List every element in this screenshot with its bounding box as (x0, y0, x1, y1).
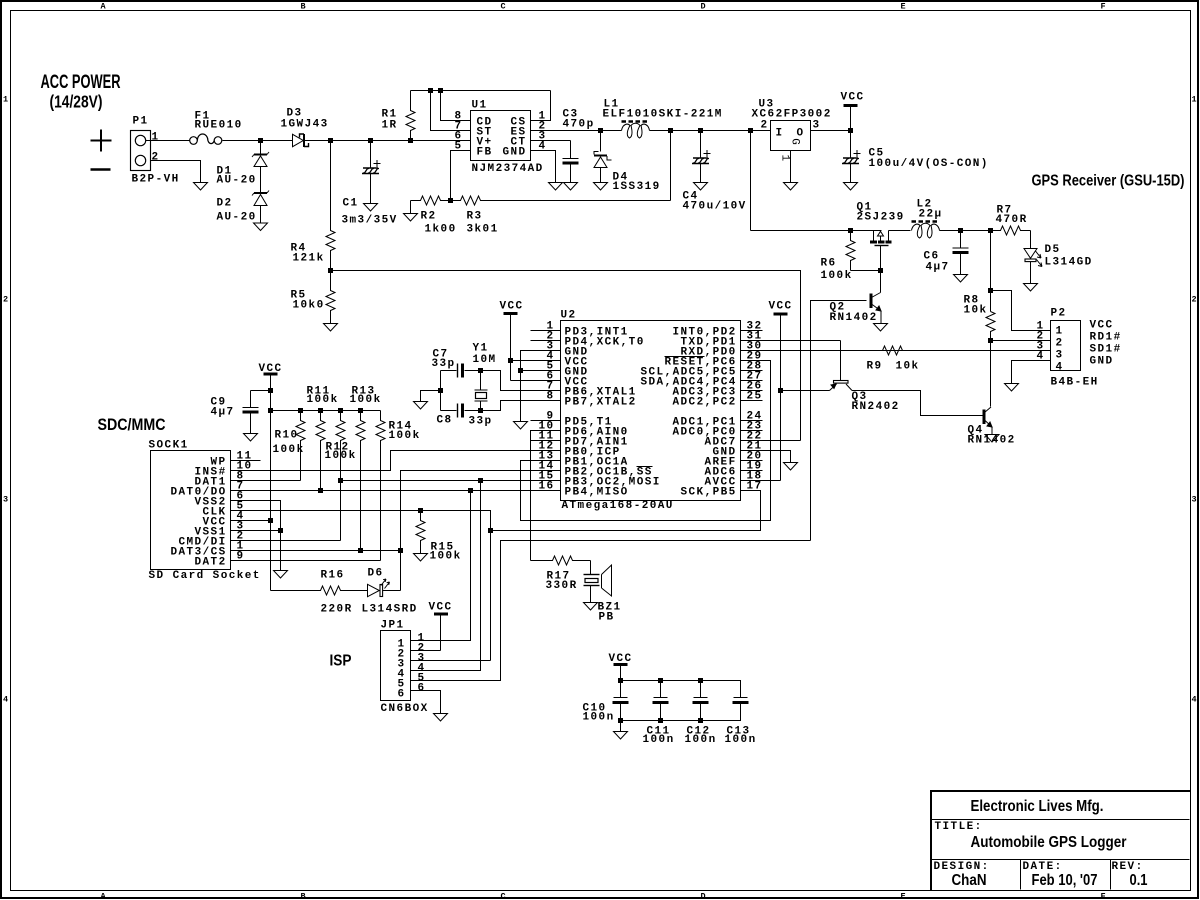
ground BZ1 (584, 603, 598, 611)
resistor R3 (451, 196, 671, 205)
svg-text:6: 6 (398, 689, 406, 701)
svg-text:1GWJ43: 1GWJ43 (281, 119, 329, 131)
label C11 100n (643, 734, 675, 746)
svg-text:10k: 10k (896, 361, 920, 373)
svg-text:2: 2 (152, 152, 160, 164)
svg-text:Automobile GPS Logger: Automobile GPS Logger (971, 834, 1127, 851)
node top b (438, 88, 443, 93)
regulator U3 box (771, 121, 811, 151)
label VCC ISP (429, 602, 453, 614)
ground pin21 (784, 463, 798, 471)
label ATmega168-20AU (562, 500, 674, 512)
resistor R12 (336, 411, 345, 541)
svg-text:330R: 330R (546, 580, 578, 592)
label C3 (563, 109, 579, 121)
node decouple top 1 (658, 678, 663, 683)
svg-text:TITLE:: TITLE: (935, 821, 983, 833)
wire JP1 pin1 MISO (411, 491, 471, 641)
label U2 (561, 310, 577, 322)
ground D2 (254, 223, 268, 231)
wire P2 pin4 gnd (1012, 361, 1051, 384)
label D2 (217, 198, 233, 210)
svg-text:RD1#: RD1# (1090, 332, 1122, 344)
label R13 (352, 386, 376, 398)
JP1 pin 4 (418, 663, 426, 675)
svg-text:R3: R3 (467, 211, 483, 223)
capacitor C11 (660, 681, 662, 698)
label JP1 (381, 620, 405, 632)
ground JP1 (434, 714, 448, 722)
label P1 (133, 116, 149, 128)
svg-text:E: E (901, 892, 906, 900)
wire xtal2 to pin8 (481, 401, 561, 411)
label Q3 RN2402 (852, 401, 900, 413)
label Y1 10M (473, 354, 497, 366)
plus symbol (91, 130, 112, 152)
svg-text:C: C (501, 2, 506, 12)
JP1 pin 1 (418, 633, 426, 645)
label B4B-EH (1051, 377, 1099, 389)
resistor R16 (271, 586, 351, 595)
node VCC main (848, 128, 853, 133)
wire INS# net (231, 451, 561, 471)
node R13 dat3 (358, 548, 363, 553)
label P2 VCC (1090, 320, 1114, 332)
label RUE010 (195, 120, 243, 132)
svg-text:AU-20: AU-20 (217, 175, 257, 187)
svg-text:Y1: Y1 (473, 343, 489, 355)
wire MOSI to pin15 (341, 480, 561, 482)
label P2 RD1# (1090, 332, 1122, 344)
wire L1 to node (650, 130, 671, 132)
svg-text:D5: D5 (1045, 244, 1061, 256)
svg-text:D: D (701, 892, 706, 900)
P2 pin 3 (1037, 341, 1045, 353)
svg-text:10M: 10M (473, 354, 497, 366)
title Automobile GPS Logger (971, 834, 1127, 851)
title block frame (930, 791, 1191, 891)
ground P2 (1005, 384, 1019, 392)
label R11 (307, 386, 331, 398)
capacitor C13 (0, 0, 2, 2)
node R11 dat0 (318, 488, 323, 493)
ground mcu (514, 422, 528, 430)
svg-text:B: B (301, 892, 306, 900)
svg-text:3: 3 (813, 120, 821, 132)
svg-text:4μ7: 4μ7 (926, 262, 950, 274)
wire R12 stem (340, 481, 342, 541)
label Q2 (830, 302, 846, 314)
U3 pin 3 (813, 120, 821, 132)
label R4 (291, 243, 307, 255)
minus symbol (91, 168, 111, 171)
svg-text:A: A (101, 892, 107, 900)
node VSS join (278, 528, 283, 533)
diode D4 1SS319 (594, 131, 612, 183)
svg-text:100k: 100k (273, 444, 305, 456)
connector P1 (131, 131, 151, 171)
ground Q4 (985, 435, 999, 443)
resistor R4 (326, 141, 335, 271)
svg-text:1R: 1R (382, 120, 398, 132)
VCC symbol mcu right (774, 314, 788, 481)
svg-text:L314SRD: L314SRD (362, 604, 418, 616)
svg-text:AU-20: AU-20 (217, 212, 257, 224)
svg-text:4: 4 (3, 695, 8, 705)
title ChaN (952, 872, 987, 889)
resistor R2 (411, 196, 451, 205)
label CN6BOX (381, 703, 429, 715)
node C9 tap (268, 388, 273, 393)
node pullup rail x320 (318, 408, 323, 413)
svg-text:P1: P1 (133, 116, 149, 128)
wire PD6 to R17 (531, 431, 561, 561)
label U1 (472, 100, 488, 112)
wire CMD MOSI net (231, 540, 341, 542)
capacitor C4 (692, 131, 711, 183)
svg-text:ISP: ISP (330, 653, 352, 670)
wire RXD to P2 (741, 350, 1051, 352)
label Q3 (852, 391, 868, 403)
svg-text:2: 2 (761, 120, 769, 132)
capacitor C8 (441, 404, 481, 418)
label C10 (583, 703, 607, 715)
wire xtal gnd (421, 391, 441, 402)
label L1 (604, 99, 620, 111)
svg-text:B4B-EH: B4B-EH (1051, 377, 1099, 389)
svg-text:3: 3 (3, 495, 8, 505)
wire P1 pin1 to F1 (146, 140, 190, 142)
svg-text:100n: 100n (725, 734, 757, 746)
label C7 33p (432, 358, 456, 370)
label R10 100k (273, 444, 305, 456)
node MOSI (478, 478, 483, 483)
op-amp U1 NJM2374AD box (455, 111, 547, 161)
label C9 4u7 (211, 407, 235, 419)
wire VCC pin6 (511, 380, 561, 382)
ground SOCK1 (274, 571, 288, 579)
svg-text:VCC: VCC (609, 653, 633, 665)
label R3 3k01 (467, 224, 499, 236)
label R17 (547, 571, 571, 583)
title SDC/MMC (98, 415, 166, 434)
wire JP1 pin2 VCC (411, 650, 441, 652)
label C12 100n (685, 734, 717, 746)
label C6 (924, 251, 940, 263)
node xtal2 (478, 408, 483, 413)
label R1 1R (382, 120, 398, 132)
svg-text:D2: D2 (217, 198, 233, 210)
title 0.1 (1130, 872, 1148, 889)
P1 pin 2 (152, 152, 160, 164)
node C1 tap (368, 138, 373, 143)
resistor R13 (356, 411, 365, 551)
title GPS Receiver (GSU-15D) (1032, 173, 1185, 190)
label NJM2374AD (472, 163, 544, 175)
title ISP (330, 653, 352, 670)
title block DESIGN: (934, 861, 990, 873)
label D5 L314GD (1045, 257, 1093, 269)
mcu U2 ATmega168 box (531, 321, 763, 501)
svg-text:ChaN: ChaN (952, 872, 987, 889)
resistor R9 (741, 346, 1051, 355)
wire pin21 gnd (741, 451, 791, 463)
wire decouple top rail (621, 681, 741, 698)
wire Q1 drain (889, 230, 911, 232)
wire R8 to Q4 (990, 341, 992, 407)
wire U1 FB (451, 151, 471, 201)
label P2 SD1# (1090, 344, 1122, 356)
wire xtal caps join (440, 371, 442, 411)
node xtal1 (478, 368, 483, 373)
wire pullup rail (271, 410, 381, 412)
connector P2 box (1051, 321, 1081, 374)
svg-text:JP1: JP1 (381, 620, 405, 632)
wire SS net (401, 471, 561, 591)
wire TXD to Q3 (741, 340, 841, 342)
svg-text:I: I (776, 128, 784, 140)
wire rail to Q1 (751, 230, 882, 232)
ground R5 (324, 324, 338, 332)
U3 pin 2 (761, 120, 769, 132)
label C5 (869, 148, 885, 160)
label R5 10k0 (293, 300, 325, 312)
svg-text:2SJ239: 2SJ239 (857, 212, 905, 224)
ground C5 (844, 183, 858, 191)
diode D3 (261, 134, 331, 147)
wire L2 out (940, 230, 991, 232)
svg-text:ACC POWER: ACC POWER (41, 71, 121, 93)
wire SCK to pin17 (491, 491, 761, 531)
wire GND pins (521, 351, 561, 422)
label D5 (1045, 244, 1061, 256)
svg-text:ADC2,PC2: ADC2,PC2 (673, 397, 737, 409)
ground D5 (1024, 284, 1038, 292)
capacitor C9 (243, 391, 259, 434)
node MISO (468, 488, 473, 493)
svg-text:RUE010: RUE010 (195, 120, 243, 132)
svg-text:VCC: VCC (500, 301, 524, 313)
capacitor C6 (953, 231, 969, 275)
svg-text:R9: R9 (867, 361, 883, 373)
label C7 (433, 349, 449, 361)
label B2P-VH (132, 174, 180, 186)
node U3 in (748, 128, 753, 133)
svg-text:FB: FB (477, 147, 493, 159)
node decouple bottom 1 (658, 718, 663, 723)
node decouple bottom 0 (618, 718, 623, 723)
diode D2 (252, 191, 269, 224)
svg-text:2: 2 (1192, 295, 1197, 305)
transistor Q4 RN1402 (984, 407, 992, 435)
svg-text:L314GD: L314GD (1045, 257, 1093, 269)
svg-text:3k01: 3k01 (467, 224, 499, 236)
label R3 (467, 211, 483, 223)
svg-text:CN6BOX: CN6BOX (381, 703, 429, 715)
label Q4 (968, 425, 984, 437)
svg-text:4μ7: 4μ7 (211, 407, 235, 419)
led D6 L314SRD (351, 579, 401, 597)
ground U3 (784, 183, 798, 191)
connector JP1 box (381, 631, 411, 701)
ground D4 (594, 183, 608, 191)
svg-text:6: 6 (418, 683, 426, 695)
ground C6 (954, 275, 968, 283)
label R12 100k (325, 450, 357, 462)
node R12 mosi (338, 478, 343, 483)
svg-text:4: 4 (1056, 362, 1064, 374)
node R8 bottom (988, 338, 993, 343)
label R8 (964, 295, 980, 307)
wire U1 top (411, 90, 551, 92)
svg-text:1: 1 (1192, 95, 1197, 105)
svg-text:VCC: VCC (429, 602, 453, 614)
label Y1 (473, 343, 489, 355)
wire VCC down to SD (270, 391, 272, 591)
svg-text:121k: 121k (293, 253, 325, 265)
label D4 (613, 172, 629, 184)
ground Q2 (874, 324, 888, 332)
label R9 10k (896, 361, 920, 373)
U3 pin 1 ground lead (779, 151, 791, 183)
svg-text:25: 25 (747, 391, 763, 403)
svg-text:100n: 100n (583, 712, 615, 724)
svg-text:RN1402: RN1402 (830, 312, 878, 324)
wire GND pin5 (521, 370, 561, 372)
wire R6 bottom (851, 270, 881, 272)
wire P1 pin2 to ground (151, 161, 201, 183)
label VCC mcu left (500, 301, 524, 313)
svg-text:Electronic Lives Mfg.: Electronic Lives Mfg. (971, 798, 1104, 815)
label Q4 RN1402 (968, 435, 1016, 447)
svg-text:F: F (1101, 2, 1106, 12)
wire DAT2 to R14 (231, 560, 381, 562)
capacitor C13 plates (733, 698, 749, 703)
label R15 100k (430, 551, 462, 563)
svg-text:VCC: VCC (1090, 320, 1114, 332)
label R8 10k (964, 305, 988, 317)
label R4 121k (293, 253, 325, 265)
wire 5V rail (671, 130, 771, 132)
svg-text:GND: GND (503, 147, 527, 159)
P1 pin 1 (152, 132, 160, 144)
led D5 L314GD (1024, 231, 1042, 284)
node R1 bottom (408, 138, 413, 143)
wire main rail (331, 140, 471, 142)
label SOCK1 (149, 440, 189, 452)
node Q1 gate (878, 268, 883, 273)
node R6 top (848, 228, 853, 233)
svg-text:1SS319: 1SS319 (613, 181, 661, 193)
label Q1 (857, 202, 873, 214)
svg-text:100k: 100k (307, 394, 339, 406)
wire to U1 ST (431, 91, 471, 131)
node SCK branch (488, 528, 493, 533)
resistor R7 (991, 226, 1031, 235)
label D1 AU-20 (217, 175, 257, 187)
svg-text:C1: C1 (343, 198, 359, 210)
wire RD1 line (991, 340, 1051, 342)
label VCC decoupling (609, 653, 633, 665)
ground crystal (414, 402, 428, 410)
svg-text:100u/4V(OS-CON): 100u/4V(OS-CON) (869, 158, 989, 170)
label D4 1SS319 (613, 181, 661, 193)
svg-text:Feb 10, '07: Feb 10, '07 (1032, 872, 1098, 889)
label C8 (437, 415, 453, 427)
svg-text:100n: 100n (685, 734, 717, 746)
transistor Q3 RN2402 (830, 341, 853, 391)
capacitor C12 (700, 681, 702, 698)
svg-text:SD Card Socket: SD Card Socket (149, 570, 261, 582)
ground decoupling (614, 732, 628, 740)
wire DAT0 MISO net (231, 490, 561, 492)
label L2 (917, 199, 933, 211)
svg-text:C: C (501, 892, 506, 900)
svg-text:D6: D6 (368, 568, 384, 580)
svg-text:GND: GND (1090, 356, 1114, 368)
label C3 470p (563, 119, 595, 131)
inductor L2 (912, 222, 940, 239)
label VCC mcu right (769, 301, 793, 313)
label R2 1k00 (425, 224, 457, 236)
title block REV: (1112, 861, 1144, 873)
svg-text:100n: 100n (643, 734, 675, 746)
svg-text:GPS Receiver (GSU-15D): GPS Receiver (GSU-15D) (1032, 173, 1185, 190)
node decouple bottom 2 (698, 718, 703, 723)
svg-text:10k0: 10k0 (293, 300, 325, 312)
svg-text:ATmega168-20AU: ATmega168-20AU (562, 500, 674, 512)
svg-text:U1: U1 (472, 100, 488, 112)
node C6 tap (958, 228, 963, 233)
label D1 (217, 166, 233, 178)
svg-text:ELF1010SKI-221M: ELF1010SKI-221M (603, 109, 723, 121)
svg-text:100k: 100k (350, 394, 382, 406)
resistor R14 (376, 411, 385, 561)
P2 pin 2 (1037, 331, 1045, 343)
svg-text:VCC: VCC (841, 92, 865, 104)
wire CS to top (531, 91, 551, 121)
label R16 (321, 570, 345, 582)
svg-text:B: B (301, 2, 306, 12)
wire decouple bottom rail (621, 703, 741, 721)
svg-text:33p: 33p (469, 416, 493, 428)
label BZ1 PB (599, 612, 615, 624)
capacitor C11 plates (653, 698, 669, 721)
capacitor C10 plates (613, 698, 629, 721)
label R7 470R (996, 214, 1028, 226)
svg-text:3: 3 (1192, 495, 1197, 505)
U1 pin6 stub (470, 140, 472, 142)
label P2 (1051, 308, 1067, 320)
svg-text:1: 1 (152, 132, 160, 144)
svg-text:R2: R2 (421, 211, 437, 223)
svg-text:SDC/MMC: SDC/MMC (98, 415, 166, 434)
node top a (428, 88, 433, 93)
svg-text:PB: PB (599, 612, 615, 624)
label SD Card Socket (149, 570, 261, 582)
label F1 (195, 111, 211, 123)
resistor R8 (986, 312, 995, 341)
svg-text:R10: R10 (275, 430, 299, 442)
wire to U1 CD (441, 91, 471, 121)
label D3 1GWJ43 (281, 119, 329, 131)
wire U1 GND (531, 151, 556, 183)
capacitor C7 (441, 364, 481, 378)
ground U1 (549, 183, 563, 191)
wire feedback up (670, 131, 672, 201)
VCC symbol decoupling (614, 665, 628, 681)
svg-text:U2: U2 (561, 310, 577, 322)
